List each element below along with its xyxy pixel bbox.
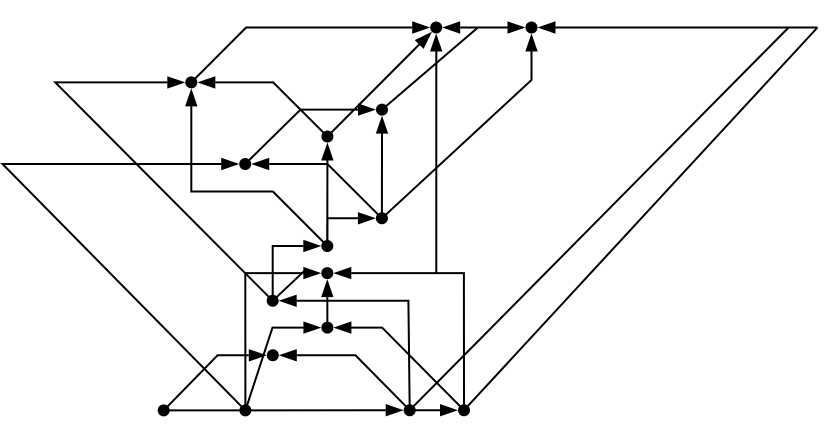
wire edge n15-n12 — [279, 349, 410, 410]
wire edge n13-n12 — [164, 349, 267, 410]
node n5 — [430, 22, 442, 34]
node n2 — [239, 158, 251, 170]
wire edge n16-n9 — [333, 267, 464, 410]
node n8 — [321, 240, 333, 252]
wire edge n16-n5 — [430, 34, 442, 274]
wire edge n14-n11 — [245, 321, 321, 410]
node n7 — [376, 212, 388, 224]
wire edge n15-n6b — [410, 28, 789, 411]
node n11 — [321, 322, 333, 334]
node n16 — [458, 404, 470, 416]
node n10 — [267, 295, 279, 307]
wire edge n15-n6 — [538, 21, 818, 33]
wire edge n10-n1 — [55, 76, 272, 301]
node n3 — [321, 131, 333, 143]
wire edge n4-n6 — [478, 21, 526, 33]
wire edge n4-n5 — [382, 21, 478, 109]
wire edge n13-n14 — [164, 409, 246, 411]
wire edge n14-n15 — [245, 404, 403, 416]
wire edge n8-n2 — [251, 158, 327, 246]
wire edge n14-n2 — [3, 158, 246, 411]
wire edge n16-n6 — [464, 28, 818, 411]
node n12 — [267, 349, 279, 361]
wire edge n8-n7 — [327, 212, 376, 246]
wire edge n16-n11 — [333, 321, 464, 410]
node n13 — [158, 404, 170, 416]
node n1 — [185, 76, 197, 88]
wire edge n3-n5 — [327, 32, 432, 137]
wire edge n3-n1 — [197, 76, 327, 136]
node n4 — [376, 104, 388, 116]
wire edge n1-n5 — [191, 21, 430, 82]
wire edge n15-n10 — [279, 295, 410, 411]
wire edge n15-n16 — [410, 404, 458, 416]
wire edge n8-n1 — [185, 88, 327, 246]
node n6 — [526, 22, 538, 34]
wire edge n10-n9 — [273, 270, 305, 301]
node n15 — [404, 404, 416, 416]
node n14 — [239, 404, 251, 416]
wire edge n7-n4 — [376, 116, 388, 219]
wire edge n2-n4 — [245, 110, 300, 164]
wire edge n3-n4 — [301, 103, 377, 115]
wire edge n10-n8 — [273, 240, 322, 301]
wire edge n11-n9 — [321, 279, 333, 328]
wire edge n14-n9 — [245, 267, 321, 411]
wire edge n7-n6 — [382, 34, 538, 219]
node n9 — [321, 267, 333, 279]
wire edge n7-n3 — [321, 143, 382, 219]
